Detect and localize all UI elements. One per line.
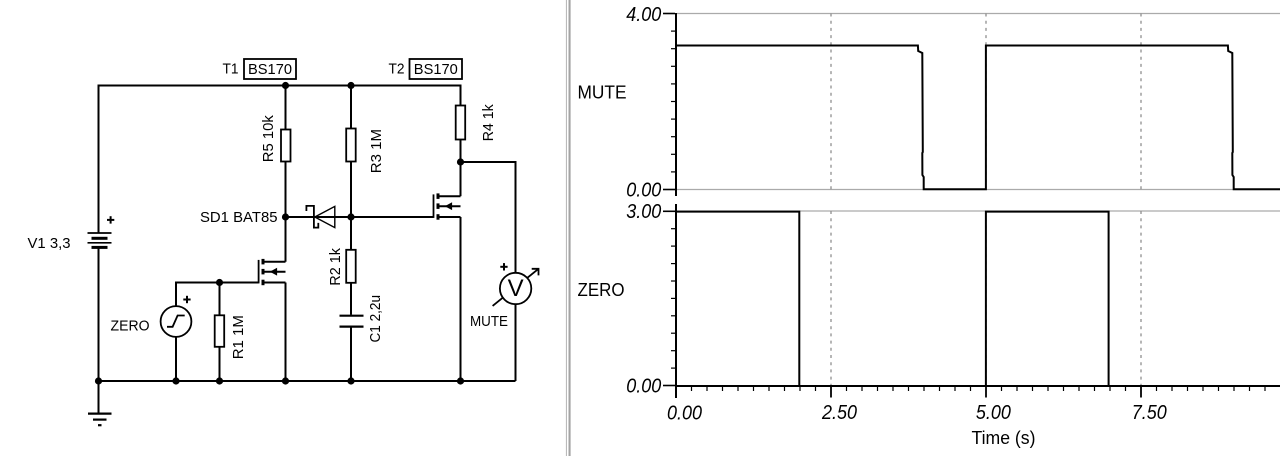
- wire bottom rail: [99, 380, 516, 382]
- node junction SD1 anode R5: [282, 213, 289, 220]
- node junction bottom rail T2 source: [457, 377, 464, 384]
- battery V1: [88, 233, 112, 247]
- gridline vertical dashed 5.00 ZERO: [985, 211, 987, 386]
- ground: [88, 414, 112, 426]
- node junction bottom rail C1: [347, 377, 354, 384]
- svg-text:0.00: 0.00: [626, 374, 662, 397]
- resistor R1: [215, 315, 225, 347]
- gridline vertical dashed 5.00 MUTE: [985, 14, 987, 190]
- gridline vertical dashed 7.50 MUTE: [1140, 14, 1142, 190]
- wire top rail from battery to R4 branch: [99, 86, 461, 234]
- svg-text:MUTE: MUTE: [578, 83, 627, 103]
- wire ZERO bottom: [175, 337, 177, 381]
- resistor R2: [346, 250, 356, 283]
- svg-text:0.00: 0.00: [667, 402, 703, 425]
- wire T1 drain branch through R5: [285, 86, 287, 262]
- wire ZERO top to T1 gate: [176, 283, 259, 307]
- y axis ZERO plot: [675, 204, 677, 398]
- transistor Q1 T1 mosfet: [259, 259, 286, 285]
- voltmeter plus sign: [500, 263, 507, 270]
- node junction bottom rail ground: [95, 377, 102, 384]
- svg-text:3.00: 3.00: [626, 200, 662, 223]
- resistor R3: [346, 129, 356, 162]
- ticks MUTE y axis major: [663, 14, 675, 190]
- svg-text:ZERO: ZERO: [578, 280, 625, 300]
- node junction top rail R3: [347, 82, 354, 89]
- voltmeter U1 MUTE: [500, 273, 531, 304]
- wire R1 branch: [219, 283, 221, 382]
- gridline vertical dashed 7.50 ZERO: [1140, 211, 1142, 386]
- wire R4 branch: [460, 86, 462, 163]
- gridline horizontal 0.00 MUTE: [677, 189, 1280, 191]
- ticks MUTE y axis minor: [671, 31, 675, 172]
- resistor R4: [456, 106, 466, 140]
- node junction ZERO R1 gate: [216, 279, 223, 286]
- gridline vertical dashed 2.50 ZERO: [830, 211, 832, 386]
- svg-text:V1 3,3: V1 3,3: [28, 235, 71, 252]
- y axis MUTE plot: [675, 13, 677, 196]
- svg-text:4.00: 4.00: [626, 3, 662, 26]
- svg-text:0.00: 0.00: [626, 179, 662, 202]
- resistor R5: [281, 130, 291, 162]
- capacitor C1: [340, 316, 364, 327]
- wire R3 branch: [350, 86, 352, 218]
- ticks x axis major: [676, 387, 1141, 398]
- wire R2 C1 branch upper: [350, 217, 352, 315]
- node junction SD1 cathode R3 R2: [347, 213, 354, 220]
- ticks ZERO y axis minor: [671, 229, 675, 368]
- svg-text:V: V: [508, 275, 524, 302]
- svg-text:T1: T1: [223, 61, 239, 78]
- svg-text:7.50: 7.50: [1132, 401, 1168, 424]
- svg-text:R1 1M: R1 1M: [230, 315, 247, 359]
- svg-text:R3 1M: R3 1M: [368, 129, 385, 173]
- node junction bottom rail R1: [216, 377, 223, 384]
- node junction R4 T2 drain voltmeter: [457, 158, 464, 165]
- svg-text:2.50: 2.50: [821, 401, 857, 424]
- svg-text:R4 1k: R4 1k: [480, 104, 497, 141]
- node junction top rail T1 drain: [282, 82, 289, 89]
- wire diode row to T2 gate: [286, 216, 434, 218]
- transistor Q2 T2 mosfet: [434, 193, 461, 219]
- ticks x axis minor: [692, 387, 1266, 391]
- wire C1 bottom to rail: [350, 328, 352, 382]
- wire T2 drain: [460, 162, 462, 196]
- svg-text:Time (s): Time (s): [972, 428, 1036, 448]
- svg-text:5.00: 5.00: [976, 401, 1012, 424]
- wire T1 source to bottom rail: [285, 283, 287, 382]
- gridline horizontal 4.00 MUTE: [677, 13, 1280, 15]
- label BS170 of T1 in box: [244, 59, 296, 79]
- node junction bottom rail ZERO: [172, 377, 179, 384]
- ZERO plus sign: [183, 296, 190, 303]
- panel divider: [566, 0, 571, 456]
- wire voltmeter bottom: [515, 305, 517, 382]
- svg-text:MUTE: MUTE: [470, 313, 508, 330]
- voltmeter MUTE arrow: [493, 269, 539, 306]
- label BS170 of T2 in box: [410, 59, 463, 79]
- waveform ZERO: [677, 212, 1280, 386]
- svg-text:BS170: BS170: [414, 61, 458, 78]
- waveform MUTE: [677, 46, 1280, 190]
- source ZERO generator: [161, 306, 192, 337]
- node junction bottom rail T1 source: [282, 377, 289, 384]
- svg-text:SD1 BAT85: SD1 BAT85: [200, 209, 278, 226]
- diode SD1 schottky: [306, 206, 334, 228]
- svg-text:R2 1k: R2 1k: [327, 248, 344, 286]
- svg-text:ZERO: ZERO: [111, 317, 150, 334]
- ticks ZERO y axis major: [663, 211, 675, 385]
- wire voltmeter branch: [461, 162, 516, 273]
- wire T2 source to bottom rail: [460, 217, 462, 381]
- x axis time: [675, 385, 1280, 387]
- svg-text:T2: T2: [389, 61, 405, 78]
- svg-text:BS170: BS170: [248, 61, 292, 78]
- svg-text:C1 2,2u: C1 2,2u: [367, 295, 384, 343]
- wire left rail battery bottom to ground: [98, 248, 100, 414]
- gridline vertical dashed 2.50 MUTE: [830, 14, 832, 190]
- gridline horizontal 3.00 ZERO: [677, 210, 1280, 212]
- battery plus sign: [107, 216, 114, 223]
- svg-text:R5 10k: R5 10k: [260, 115, 277, 162]
